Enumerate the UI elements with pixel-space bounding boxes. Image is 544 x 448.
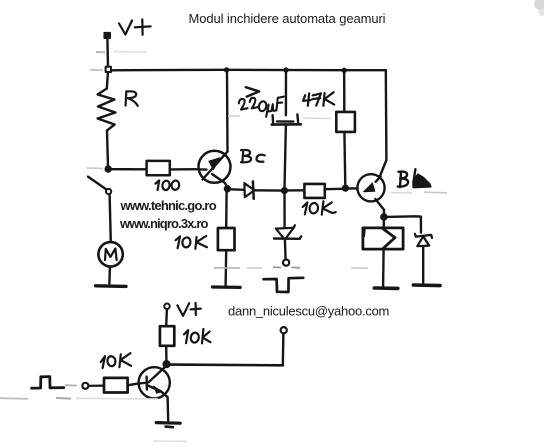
wire Bc emitter to 10K (225, 192, 228, 228)
switch arm (88, 177, 107, 190)
wire BD collector from rail (380, 70, 386, 176)
BD arrow (376, 177, 381, 182)
wire to diode (230, 188, 244, 191)
node dot capacitor top (283, 67, 288, 72)
terminal V+ bottom (164, 304, 169, 309)
wire diode to terminal (284, 240, 287, 259)
wire 100 to Bc base (170, 168, 199, 171)
wire node to SCR branch (283, 192, 286, 227)
resistor 10K (Bc emitter) (218, 228, 235, 250)
wire motor to ground (108, 267, 111, 284)
transistor BD circle (357, 174, 384, 201)
Bc arrow (209, 158, 220, 170)
wire diode to node (254, 189, 282, 192)
capacitor wire top (285, 72, 288, 115)
resistor 10K (BD base) (304, 184, 324, 198)
label BD (398, 169, 431, 187)
node BD emitter (381, 214, 387, 220)
wire base to 10K (128, 383, 147, 385)
wire V+ to 10k (165, 309, 168, 326)
junction node left mid (105, 166, 111, 172)
resistor R zigzag (98, 89, 116, 131)
wire switch to motor (110, 194, 111, 242)
relay K1 (363, 228, 403, 249)
wire Bc collector up (226, 72, 229, 151)
Bc base/collector diagonal (199, 168, 207, 171)
transistor Bc circle (199, 151, 231, 183)
ground motor (96, 284, 126, 288)
wire rail to resistor R (107, 72, 108, 89)
ground zener (413, 283, 440, 287)
wire junction to 100 resistor (111, 168, 146, 171)
capacitor wire bottom (285, 125, 286, 188)
terminal V+ top (104, 33, 110, 39)
label V+ top (119, 19, 151, 34)
Q3 emitter with arrow (148, 385, 168, 396)
wire top rail (111, 69, 386, 72)
ground Q3 (156, 421, 180, 425)
svg-text:www.tehnic.go.ro: www.tehnic.go.ro (120, 198, 217, 213)
ground relay (374, 286, 398, 290)
label 10 K (176, 236, 207, 249)
label V+ bottom (177, 303, 200, 316)
label 10k bottom (184, 329, 210, 343)
wire emitter to node (383, 210, 386, 215)
ground 10K (212, 285, 240, 289)
svg-text:Modul inchidere automata geamu: Modul inchidere automata geamuri (189, 11, 386, 26)
node Bc emitter junction (225, 186, 231, 192)
wire relay to ground (382, 250, 385, 287)
wire node to BD (348, 187, 358, 189)
label 10k BD (303, 201, 336, 214)
transistor Q3 circle (139, 367, 170, 398)
node under capacitor (282, 188, 288, 194)
wire node to 10K (287, 189, 304, 191)
resistor 10k bottom (160, 326, 174, 346)
wire 47K top (343, 72, 345, 112)
wire node to relay (383, 219, 386, 228)
junction node bottom (163, 361, 170, 368)
node dot collector top (224, 67, 229, 72)
label R (126, 91, 138, 106)
switch contact (106, 189, 111, 194)
label 10K input (101, 353, 131, 368)
resistor 10K input (104, 378, 128, 393)
resistor 100 (147, 161, 170, 175)
wire 10k to junction (165, 346, 168, 361)
label Bc (241, 150, 265, 162)
diode D1 (244, 183, 254, 197)
Q3 base bar (145, 377, 148, 390)
wire up to terminal (282, 333, 285, 365)
input terminal circle (82, 383, 88, 389)
junction node top-left (106, 67, 111, 72)
wire zener to ground (422, 246, 424, 283)
label 220uF (239, 97, 284, 117)
terminal circle right (281, 327, 287, 333)
capacitor C1 plates (271, 115, 274, 124)
resistor 47K (336, 112, 355, 132)
wire 10K to ground (224, 251, 227, 286)
wire node to zener corner (387, 216, 421, 232)
svg-text:dann_niculescu@yahoo.com: dann_niculescu@yahoo.com (228, 304, 389, 319)
wire V+ down to top rail (106, 38, 109, 67)
wire 47K to BD base node (343, 132, 346, 186)
wire Q3 emitter to ground (166, 397, 169, 421)
label 47K (303, 92, 334, 106)
BD emitter (375, 199, 384, 210)
wire R to junction (107, 131, 108, 168)
wire 10K to input terminal (88, 385, 104, 387)
diode D2 (to trigger) (276, 228, 294, 240)
capacitor polarity mark (246, 87, 259, 96)
pulse waveform input (32, 377, 64, 389)
node BD base (343, 185, 349, 191)
zener diode Z1 (415, 234, 432, 238)
motor M1 (98, 242, 122, 266)
Q3 collector diagonal (149, 367, 166, 383)
wire 10K to node (325, 188, 343, 191)
node dot 47K top (342, 68, 347, 73)
pulse waveform (notch) (264, 278, 304, 292)
wire junction right (169, 363, 282, 366)
Bc emitter (212, 174, 227, 187)
svg-text:www.niqro.3x.ro: www.niqro.3x.ro (119, 216, 209, 231)
terminal circle trigger (283, 260, 289, 266)
label 100 (155, 180, 179, 191)
